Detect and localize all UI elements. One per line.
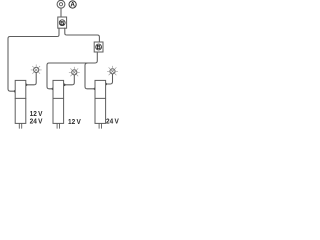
svg-text:A: A (70, 2, 75, 9)
svg-text:12 V: 12 V (68, 117, 81, 126)
wire B1 right pin to box B2 (65, 28, 100, 42)
svg-text:24 V: 24 V (106, 117, 119, 126)
svg-text:B: B (97, 45, 101, 51)
svg-text:B: B (60, 21, 64, 27)
junction dot on E2 left edge (52, 88, 55, 91)
lamp L2 (bulb with rays) (69, 67, 79, 76)
lamp L1 (bulb with rays) (31, 65, 41, 74)
socket terminal (double circle) (57, 0, 65, 8)
lamp L3 (bulb with rays) (107, 66, 117, 75)
lamp unit E2 (body with divider and plug pins) (53, 80, 64, 128)
wire lamp L2 to E2 right edge (64, 75, 74, 85)
wire branch to lamp unit E3 (85, 63, 95, 89)
adapter box B1 with circled B (58, 17, 67, 28)
label A (circled) (69, 1, 76, 9)
junction dot on E1 right edge (25, 84, 28, 87)
junction dot on E1 left edge (14, 90, 17, 93)
lamp unit E3 (body with divider and plug pins) (95, 80, 106, 128)
wire lamp L1 to E1 right edge (26, 73, 36, 85)
svg-text:24 V: 24 V (30, 117, 43, 126)
wire lamp L3 to E3 right edge (106, 74, 113, 84)
wire socket to box B1 (60, 8, 62, 17)
junction dot on E3 right edge (104, 83, 107, 86)
junction dot on E3 left edge (94, 88, 97, 91)
wire B1 left pin to lamp unit E1 (8, 28, 59, 91)
lamp unit E1 (body with divider and plug pins) (15, 80, 26, 128)
wire B2 bottom to lamp unit E2 (47, 52, 97, 89)
adapter box B2 with circled B (94, 42, 103, 52)
junction dot on E2 right edge (63, 84, 66, 87)
